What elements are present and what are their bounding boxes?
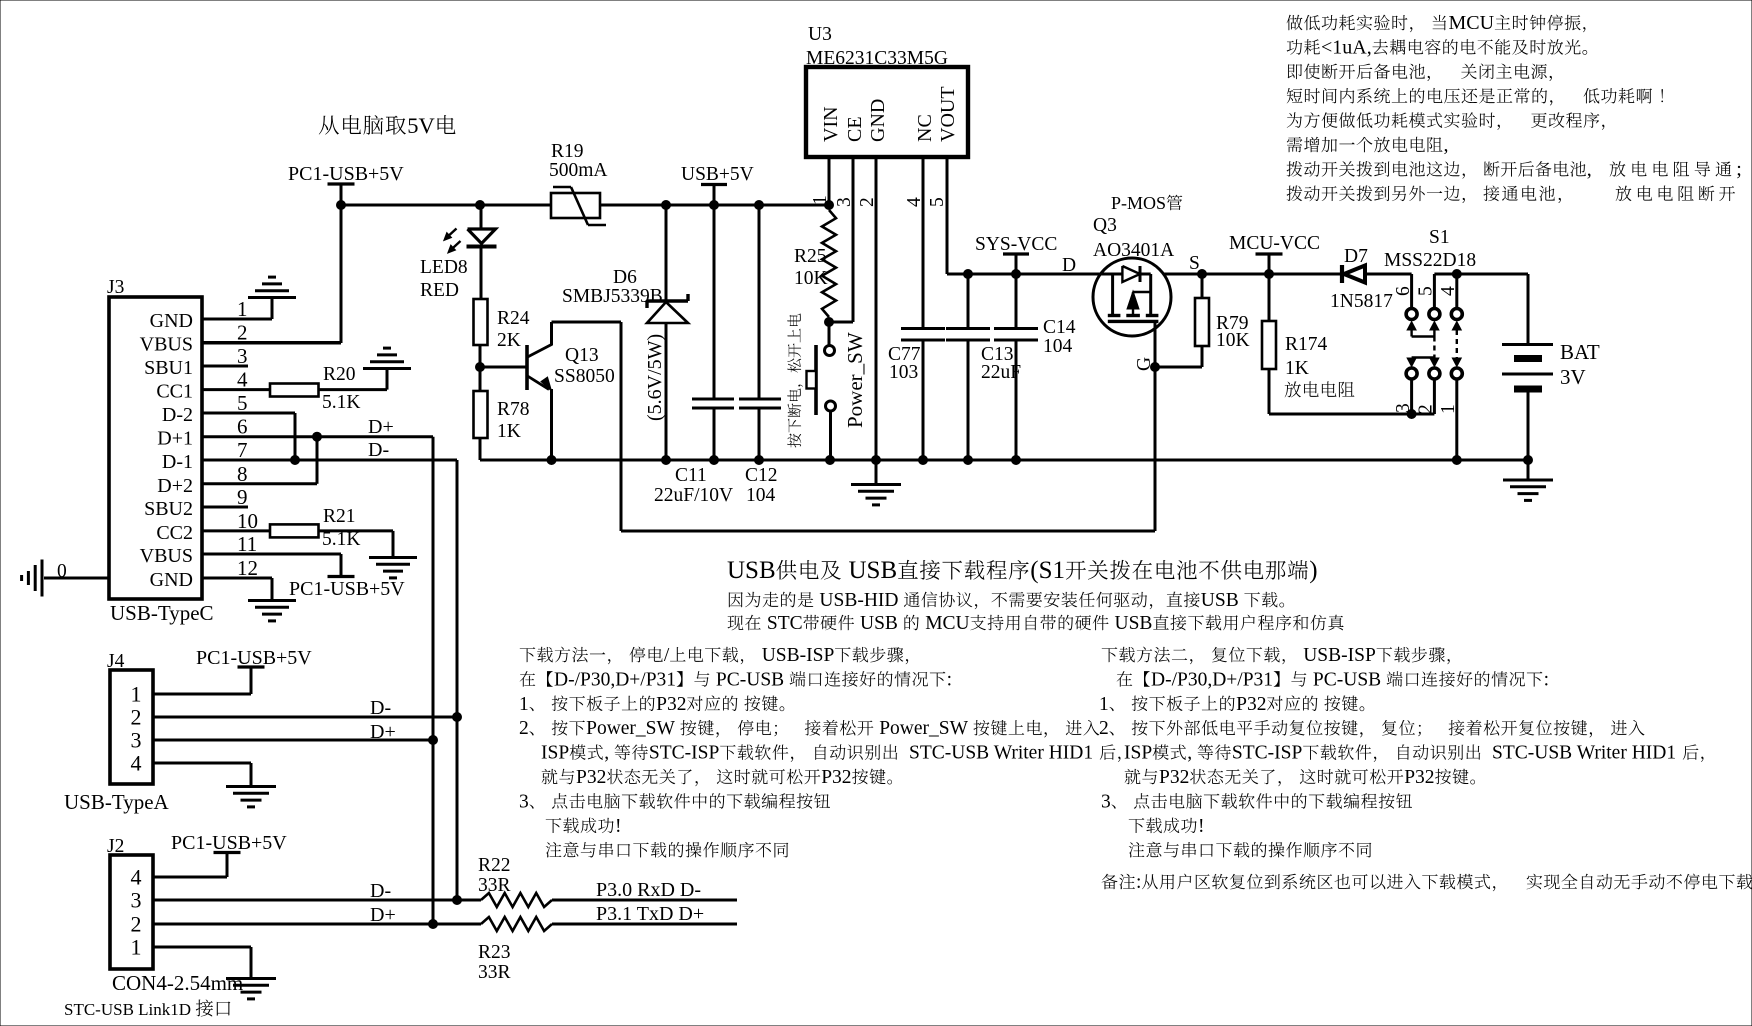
J2 pin4 wire [153,876,227,879]
wire VBUS from J3 pin2 [340,205,343,343]
svg-text:,: , [604,743,609,764]
resistor R25 zigzag [822,210,836,317]
ground symbol J2 [226,977,276,980]
J3 pin4 wire CC1 [202,388,270,391]
svg-text:PC-USB: PC-USB [1313,669,1381,690]
svg-text:1: 1 [519,694,529,715]
svg-text:D-: D- [368,439,389,461]
svg-text:P32: P32 [1159,767,1189,788]
wire D+ bus [432,437,435,924]
J4 pin4 wire gnd [153,762,251,765]
svg-text:PC1-USB+5V: PC1-USB+5V [171,832,287,854]
svg-text:2: 2 [1099,718,1109,739]
svg-text:USB-TypeA: USB-TypeA [64,790,170,814]
wire R78 to ground rail [479,438,482,460]
J3 pin2 wire VBUS [202,341,341,344]
svg-text:9: 9 [237,485,248,509]
junction S [1198,270,1207,279]
power flag USB+5V [701,183,727,186]
svg-text:R22: R22 [478,855,511,876]
svg-text:Power_SW: Power_SW [586,718,675,739]
svg-text:2: 2 [519,718,529,739]
resistor R20 [270,384,319,397]
svg-text:D-2: D-2 [162,404,193,426]
wire battery bottom [1527,391,1530,460]
diode D7 [1340,265,1344,283]
svg-text:!: ! [615,816,622,837]
S1 top arrows [1407,322,1416,331]
resistor R24 [474,299,488,345]
J3 pin3 stub [202,365,248,368]
svg-text:D+: D+ [368,416,394,438]
svg-text:;: ; [1736,158,1742,180]
svg-text:USB: USB [1115,613,1153,634]
svg-text:USB-TypeC: USB-TypeC [110,601,214,625]
svg-text:STC-ISP: STC-ISP [1232,743,1303,764]
J3 pin5 wire D-2 [202,412,295,415]
svg-text:PC1-USB+5V: PC1-USB+5V [196,647,312,669]
svg-text:VOUT: VOUT [937,86,959,142]
J3 pin11 wire VBUS2 [202,553,341,556]
S1 pin3 [1410,380,1413,414]
svg-text:USB: USB [849,557,898,584]
svg-text:STC-ISP: STC-ISP [649,743,720,764]
svg-text:R23: R23 [478,942,511,963]
svg-text:ISP: ISP [541,743,569,764]
capacitor C77 [901,327,945,330]
svg-text:D+: D+ [370,904,396,926]
svg-text:1: 1 [810,195,831,205]
svg-text:D+: D+ [370,721,396,743]
svg-text:2: 2 [131,705,142,730]
svg-text:4: 4 [1438,286,1459,296]
svg-text:4: 4 [131,865,142,890]
junction gate [1151,363,1160,372]
svg-text:D: D [1062,255,1076,276]
svg-text:USB: USB [860,613,898,634]
svg-text:USB: USB [727,557,776,584]
svg-text:D-/P30,D+/P31: D-/P30,D+/P31 [1151,669,1273,690]
Q3 gate wire [1154,321,1157,367]
svg-text:STC: STC [767,613,803,634]
wire R23 to P3.1 [552,923,737,926]
svg-text:VBUS: VBUS [140,334,193,356]
U3 pin 5 wire VOUT [946,157,949,274]
battery BAT [1502,343,1553,346]
svg-text:J3: J3 [107,277,124,298]
resistor R21 [270,524,319,537]
J4 pin3 wire D+ [153,739,433,742]
svg-text:103: 103 [889,362,918,383]
connector J2 box [110,855,153,969]
note 按下断电，松开上电 rotated [787,314,802,448]
svg-text:J4: J4 [107,651,125,672]
svg-text:MSS22D18: MSS22D18 [1384,250,1476,271]
svg-text:VIN: VIN [820,106,842,142]
J3 pin10 wire CC2 [202,529,270,532]
connector J4 box [110,670,153,784]
svg-text::: : [1544,669,1549,690]
wire D7 to S1 pin6 [1364,273,1412,276]
svg-text:SBU2: SBU2 [144,498,193,520]
J2 pin3 wire D- [153,899,481,902]
S1 bottom arrows [1407,358,1416,367]
svg-text:SMBJ5339B: SMBJ5339B [562,286,663,307]
svg-text:CON4-2.54mm: CON4-2.54mm [112,971,243,995]
svg-text:P32: P32 [821,767,851,788]
svg-text:D6: D6 [613,267,637,288]
svg-text:BAT: BAT [1560,340,1600,364]
junction C77-rail [919,456,928,465]
J2 pin2 wire D+ [153,923,481,926]
S1 bottom bracket [1412,356,1435,358]
junction J4 D+ [429,736,438,745]
svg-text:1K: 1K [1285,358,1309,379]
junction J2 D+ [429,920,438,929]
ground symbol R20 (up) [363,367,411,370]
svg-text:R78: R78 [497,399,530,420]
svg-text::: : [1136,872,1141,893]
svg-text:P32: P32 [656,694,686,715]
svg-text:2: 2 [131,912,142,937]
svg-text:12: 12 [237,556,258,580]
svg-text:D-/P30,D+/P31: D-/P30,D+/P31 [554,669,676,690]
power flag PC1-USB+5V [328,182,355,185]
wire base [480,366,527,369]
LED LED8 [468,229,496,244]
J2 pin1 wire gnd [153,946,251,949]
junction D6-rail [662,456,671,465]
svg-text:USB-ISP: USB-ISP [762,645,835,666]
svg-text:P3.0 RxD D-: P3.0 RxD D- [596,879,701,901]
svg-text:PC1-USB+5V: PC1-USB+5V [288,163,404,185]
svg-text:2: 2 [237,321,248,345]
ground symbol R21 (down) [369,556,417,559]
svg-text:R21: R21 [323,506,356,527]
wire R24-R78 [479,345,482,391]
wire R21 right [319,529,394,532]
svg-text:500mA: 500mA [549,160,608,181]
fuse R19 [551,193,600,218]
power flag MCU-VCC [1256,252,1283,255]
S1 top bracket [1410,330,1412,337]
svg-text:2K: 2K [497,330,521,351]
connector J3 box [109,297,202,599]
S1 pin5 wire [1434,273,1528,276]
svg-text:3: 3 [131,888,142,913]
svg-text:2: 2 [857,197,878,207]
wire R174 to S1 pin3/pin2 [1269,413,1434,416]
svg-text:6: 6 [237,415,248,439]
svg-text:STC-USB Writer HID1: STC-USB Writer HID1 [909,743,1093,764]
junction pin3 [1407,410,1416,419]
svg-text:R174: R174 [1285,334,1328,355]
svg-text:GND: GND [150,310,193,332]
power flag SYS-VCC [1003,252,1029,255]
S1 linkage dashed [1433,337,1435,358]
svg-text:P32: P32 [1404,767,1434,788]
junction D+1/D+2 [313,432,322,441]
svg-text:1K: 1K [497,421,521,442]
junction J4 D- [453,713,462,722]
J3 pin1 wire [202,318,272,321]
resistor R79 [1201,274,1204,298]
svg-text:CE: CE [844,116,866,142]
label 放电电阻 [1285,381,1355,397]
svg-text:VBUS: VBUS [140,545,193,567]
svg-text:/: / [664,645,670,666]
svg-text:1: 1 [131,935,142,960]
svg-text:10K: 10K [794,268,828,289]
wire S node [1163,273,1342,276]
junction J2 D- [453,896,462,905]
S1 pin4 [1452,270,1461,279]
svg-text:3: 3 [519,791,529,812]
svg-text:STC-USB Link1D: STC-USB Link1D [64,1000,191,1019]
svg-text:MCU: MCU [1449,12,1495,34]
svg-text:NC: NC [914,114,936,142]
svg-text:,: , [1587,158,1592,180]
svg-text:10K: 10K [1216,330,1250,351]
U3 pin 2 wire GND [875,157,878,460]
svg-text:D7: D7 [1344,246,1368,267]
svg-text:LED8: LED8 [420,257,468,278]
junction C11/USB+5V [710,201,719,210]
svg-text:8: 8 [237,462,248,486]
U3 pin 1 wire VIN [828,157,831,205]
svg-text:3: 3 [237,344,248,368]
svg-text:MCU-VCC: MCU-VCC [1229,233,1320,254]
wire R22 to P3.0 [552,899,737,902]
capacitor C11 [713,205,716,398]
junction R25-CE [825,318,834,327]
zener D6 [647,299,688,302]
wire battery top [1527,274,1530,343]
ground symbol U3 GND [875,460,878,484]
svg-text:R24: R24 [497,308,530,329]
wire D6 bottom [665,323,668,460]
junction D6 [662,201,671,210]
junction LED8 [476,201,485,210]
Q3 internals [1101,273,1122,276]
junction C12 [755,201,764,210]
wire D- bus [456,460,459,900]
junction VOUT wire C13 [964,270,973,279]
junction PowerSW-rail [826,456,835,465]
J3 pin7 wire D-1 [202,459,457,462]
wire D6 top [665,205,668,301]
svg-text:PC-USB: PC-USB [716,669,784,690]
svg-text:USB-ISP: USB-ISP [1303,645,1376,666]
junction emitter-rail [547,456,556,465]
junction GND-rail [872,456,881,465]
svg-text:U3: U3 [808,24,832,45]
J4 pin1 wire [153,693,251,696]
svg-text:RED: RED [420,280,459,301]
svg-text:(S1: (S1 [1030,557,1065,584]
svg-text:0: 0 [57,561,67,582]
svg-text:CC2: CC2 [156,522,193,544]
svg-text:R25: R25 [794,246,827,267]
power flag PC1-USB+5V at J3 pin11 [328,575,355,578]
svg-text:3V: 3V [1560,365,1586,389]
svg-text:USB+5V: USB+5V [681,164,754,185]
capacitor C12 [758,205,761,398]
wire R20 right [319,388,388,391]
svg-text:D-: D- [370,880,391,902]
svg-text:R19: R19 [551,141,584,162]
U3 pin 4 wire NC [922,157,925,327]
ground symbol J3 pin12 [248,599,296,602]
J3 pin12 wire GND [202,577,272,580]
svg-text:1: 1 [237,297,248,321]
svg-text:G: G [1134,357,1155,371]
svg-text:SS8050: SS8050 [554,366,615,387]
svg-text:USB: USB [1201,590,1239,611]
svg-text:10: 10 [237,509,258,533]
IC U3 box [806,67,968,157]
svg-text:4: 4 [237,368,248,392]
svg-text:GND: GND [867,99,889,142]
svg-text:33R: 33R [478,962,511,983]
J4 pin2 wire D- [153,716,457,719]
J3 pin0 wire [44,577,109,580]
svg-text:ME6231C33M5G: ME6231C33M5G [806,48,948,69]
svg-text:): ) [1309,557,1317,584]
capacitor C13 [967,274,970,327]
junction VIN [825,201,834,210]
svg-text:D-: D- [370,697,391,719]
svg-text:,: , [1444,134,1449,156]
S1 bottom contacts [1406,368,1417,379]
junction C13-rail [964,456,973,465]
junction base node [476,363,485,372]
svg-text:104: 104 [746,485,776,506]
svg-text:Q13: Q13 [565,345,599,366]
svg-text:7: 7 [237,438,248,462]
svg-text:P3.1 TxD D+: P3.1 TxD D+ [596,903,704,925]
svg-text:STC-USB Writer HID1: STC-USB Writer HID1 [1492,743,1676,764]
svg-text:R20: R20 [323,364,356,385]
svg-text:4: 4 [904,197,925,207]
svg-text:S1: S1 [1429,227,1450,248]
svg-text:D+1: D+1 [157,428,193,450]
junction SYS-VCC [1012,270,1021,279]
S1 pin6 [1410,274,1413,307]
junction battery-rail [1524,456,1533,465]
svg-text:PC1-USB+5V: PC1-USB+5V [289,578,405,600]
svg-text:3: 3 [1101,791,1111,812]
S1 top contacts [1406,309,1417,320]
junction C11-rail [710,456,719,465]
svg-text:Q3: Q3 [1093,215,1117,236]
junction D-2/D-1 [291,456,300,465]
svg-text:D-1: D-1 [162,451,193,473]
svg-text:5: 5 [237,391,248,415]
svg-text:11: 11 [237,532,257,556]
svg-text:SYS-VCC: SYS-VCC [975,234,1057,255]
svg-text:USB-HID: USB-HID [819,590,898,611]
svg-text:3: 3 [131,728,142,753]
svg-text:1: 1 [1099,694,1109,715]
junction MCU-VCC [1265,270,1274,279]
svg-text:<1uA,: <1uA, [1321,36,1372,58]
svg-text:(5.6V/5W): (5.6V/5W) [644,334,666,421]
wire main +5V rail [341,204,829,207]
capacitor C14 [1015,274,1018,327]
svg-text:3: 3 [834,197,855,207]
ground symbol J4 [226,785,276,788]
svg-text:5: 5 [1415,286,1436,296]
junction C12-rail [755,456,764,465]
svg-text:P32: P32 [1236,694,1266,715]
wire LED8 anode [480,205,483,229]
wire gate line to Q3 [621,530,1155,533]
transistor Q13 [525,345,529,390]
wire ground rail [480,459,1528,462]
ground symbol J3 pin1 (up) [248,296,296,299]
svg-text:ISP: ISP [1124,743,1152,764]
S1 pin2 [1433,380,1436,414]
svg-text::: : [947,669,952,690]
svg-text:Power_SW: Power_SW [843,332,867,428]
svg-text:33R: 33R [478,875,511,896]
svg-text:J2: J2 [107,836,124,857]
transistor Q3 circle [1093,258,1171,336]
svg-text:1N5817: 1N5817 [1330,291,1393,312]
svg-text:C12: C12 [745,465,778,486]
svg-text:4: 4 [131,751,142,776]
power flag J2 [214,851,241,854]
junction C14-rail [1012,456,1021,465]
svg-text:P-MOS: P-MOS [1111,193,1166,213]
pushbutton Power_SW [828,322,831,346]
S1 pin1 [1455,380,1458,460]
wire Q13 emitter [550,389,553,460]
svg-text:5: 5 [927,197,948,207]
svg-text:C14: C14 [1043,317,1076,338]
resistor R23 zigzag [481,917,552,931]
svg-text:GND: GND [150,569,193,591]
junction S1 pin1 rail [1452,456,1461,465]
J3 pin8 wire D+2 [202,482,317,485]
svg-text:6: 6 [1393,286,1414,296]
svg-text:CC1: CC1 [156,381,193,403]
svg-text:D+2: D+2 [157,475,193,497]
J3 pin9 stub [202,506,248,509]
resistor R22 zigzag [481,893,552,907]
svg-text:Power_SW: Power_SW [879,718,968,739]
svg-text:104: 104 [1043,336,1073,357]
svg-text:SBU1: SBU1 [144,357,193,379]
resistor R174 [1268,274,1271,321]
LED8 arrows [448,229,457,237]
power flag J4 [238,665,265,668]
J3 pin6 wire D+1 [202,435,433,438]
wire LED8 to R24 [480,247,483,300]
ground symbol battery [1527,460,1530,480]
svg-text:5.1K: 5.1K [322,392,360,413]
U3 pin 3 wire CE [852,157,855,322]
svg-text:C11: C11 [675,465,707,486]
svg-text:1: 1 [1438,404,1459,414]
svg-text:,: , [1187,743,1192,764]
wire Q13 collector to gate line [550,322,553,346]
svg-text:P32: P32 [576,767,606,788]
junction at PC1 flag [337,201,346,210]
earth symbol pin0 (left) [41,560,44,597]
svg-text:5V: 5V [407,113,435,138]
